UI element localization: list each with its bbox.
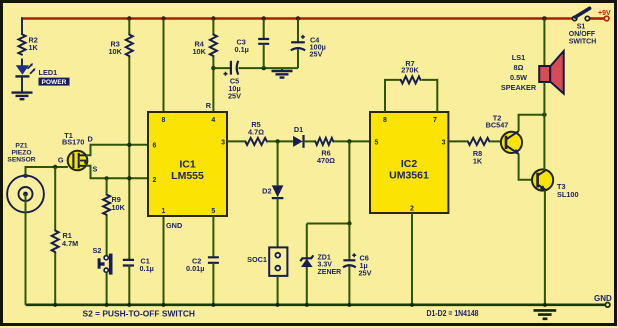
node junction rail/pin8 xyxy=(161,16,165,20)
wire R2 to LED1 xyxy=(21,59,23,66)
diode D2 xyxy=(272,185,284,197)
svg-text:3: 3 xyxy=(442,140,446,147)
svg-text:D1: D1 xyxy=(294,125,303,134)
resistor R8 xyxy=(467,138,491,145)
wire rail corner down to R2 xyxy=(21,17,23,33)
piezo sensor PZ1 xyxy=(7,176,44,213)
svg-text:D1-D2 = 1N4148: D1-D2 = 1N4148 xyxy=(427,309,479,318)
svg-text:10K: 10K xyxy=(109,47,123,56)
svg-text:S: S xyxy=(93,164,98,173)
svg-text:S2: S2 xyxy=(93,246,102,255)
wire SOC1 to ground rail xyxy=(277,276,279,305)
svg-text:SOC1: SOC1 xyxy=(247,255,267,264)
svg-text:10K: 10K xyxy=(112,203,126,212)
wire IC2 pin 3 to R8 xyxy=(448,140,466,142)
wire C6 to ground rail xyxy=(348,266,350,305)
resistor R5 xyxy=(244,138,268,145)
node junction D2 top xyxy=(275,139,279,143)
svg-text:SPEAKER: SPEAKER xyxy=(501,83,537,92)
wire D2 column xyxy=(277,141,279,185)
transistor T1 (MOSFET) xyxy=(68,151,88,171)
transistor T2 xyxy=(501,132,522,153)
wire rail to IC1 pin 8 xyxy=(163,19,165,113)
svg-text:LM555: LM555 xyxy=(171,170,204,182)
svg-text:8: 8 xyxy=(383,117,387,124)
svg-text:BS170: BS170 xyxy=(62,137,84,146)
ground (under C3/C4) xyxy=(281,68,283,70)
resistor R7 xyxy=(400,76,422,83)
node junction gate/R1 xyxy=(53,165,57,169)
switch S2 (push-to-off) xyxy=(109,254,113,275)
svg-text:ZENER: ZENER xyxy=(318,269,342,276)
wire ZD1 to ground rail xyxy=(306,267,308,305)
svg-text:0.5W: 0.5W xyxy=(510,73,527,82)
wire D1 to R6 xyxy=(304,140,315,142)
svg-text:4.7M: 4.7M xyxy=(62,239,78,248)
svg-text:GND: GND xyxy=(166,221,182,230)
resistor R2 xyxy=(19,34,26,56)
node junction rail/C3 xyxy=(262,16,266,20)
transistor T3 xyxy=(532,169,553,190)
svg-text:POWER: POWER xyxy=(42,79,67,86)
svg-text:GND: GND xyxy=(594,294,612,303)
svg-text:ZD1: ZD1 xyxy=(318,254,331,261)
svg-text:7: 7 xyxy=(433,117,437,124)
svg-text:0.01µ: 0.01µ xyxy=(186,264,204,273)
svg-text:PZ1: PZ1 xyxy=(15,143,28,150)
resistor R6 xyxy=(315,138,335,145)
wire R3 down to C1 xyxy=(128,57,130,260)
capacitor C1 xyxy=(123,260,134,266)
svg-text:BC547: BC547 xyxy=(486,120,509,129)
wire R4 to IC1 pin 4 xyxy=(212,57,214,112)
capacitor C2 xyxy=(208,257,219,263)
ground (under T3) xyxy=(534,310,557,318)
node junction S-row xyxy=(127,176,131,180)
wire C5 row left xyxy=(213,67,230,69)
wire C5 row right xyxy=(239,67,299,69)
diode D1 xyxy=(293,136,303,147)
wire rail to speaker xyxy=(543,19,545,67)
wire LED1 to ground xyxy=(21,76,23,92)
svg-text:+9V: +9V xyxy=(598,10,611,17)
node junction rail/C4 xyxy=(296,16,300,20)
wire C2 to ground rail xyxy=(212,263,214,305)
ground (under LED1) xyxy=(12,93,33,100)
wire speaker to T2/T3 xyxy=(543,82,545,170)
resistor R3 xyxy=(126,34,133,58)
wire IC1 pin 1 to ground rail xyxy=(163,216,165,305)
svg-text:270K: 270K xyxy=(401,66,419,75)
wire junction down to R9 xyxy=(106,178,108,193)
wire R5 to D1 xyxy=(268,140,293,142)
svg-text:2: 2 xyxy=(153,177,157,184)
+9V rail (top, red) xyxy=(22,17,573,20)
wire C1 to ground rail xyxy=(128,266,130,305)
speaker LS1 xyxy=(539,66,550,82)
svg-text:LED1: LED1 xyxy=(39,68,58,77)
switch S1 lever xyxy=(575,8,589,17)
zener diode ZD1 xyxy=(300,255,313,261)
svg-text:1K: 1K xyxy=(473,157,483,166)
svg-text:2: 2 xyxy=(410,206,414,213)
svg-text:25V: 25V xyxy=(310,49,323,58)
wire R1 to ground rail xyxy=(54,253,56,305)
IC2 box xyxy=(370,112,448,213)
node junction T2 collector/speaker xyxy=(542,113,546,117)
svg-text:LS1: LS1 xyxy=(512,53,525,62)
svg-text:8Ω: 8Ω xyxy=(514,63,524,72)
LED LED1 xyxy=(16,65,29,75)
svg-text:5: 5 xyxy=(211,208,215,215)
wire T2 emitter to T3 base xyxy=(519,154,538,180)
wire R8 to T2 base xyxy=(490,140,501,142)
node junction rail/R3 xyxy=(127,16,131,20)
wire rail to +9V terminal xyxy=(589,17,604,20)
node junction C3 bottom xyxy=(262,66,266,70)
wire rail to R4 xyxy=(212,19,214,34)
svg-text:470Ω: 470Ω xyxy=(317,156,335,165)
node junction rail/R4 xyxy=(211,16,215,20)
svg-text:ON/OFF: ON/OFF xyxy=(569,31,596,38)
svg-text:5: 5 xyxy=(375,140,379,147)
wire R7 loop xyxy=(385,80,437,112)
wire IC2 pin 2 to ground rail xyxy=(411,213,413,305)
POWER label box xyxy=(39,78,70,86)
wire junction down to R1 xyxy=(54,167,56,230)
svg-text:0.1µ: 0.1µ xyxy=(140,264,154,273)
svg-text:S1: S1 xyxy=(577,23,586,30)
svg-text:IC1: IC1 xyxy=(179,158,196,170)
svg-text:SWITCH: SWITCH xyxy=(569,38,597,45)
GND terminal circle xyxy=(605,303,610,308)
svg-text:UM3561: UM3561 xyxy=(389,169,429,181)
svg-text:SL100: SL100 xyxy=(557,190,579,199)
svg-text:8: 8 xyxy=(162,117,166,124)
svg-text:1K: 1K xyxy=(29,43,39,52)
node junction R6/ZD1 xyxy=(347,139,351,143)
wire T1 source to IC1 pin 2 xyxy=(86,166,148,179)
wire C3 to C5 row xyxy=(263,44,265,68)
svg-text:R: R xyxy=(206,101,212,110)
wire T1 drain to IC1 pin 6 xyxy=(86,145,148,156)
svg-text:3.3V: 3.3V xyxy=(318,262,333,269)
wire T3 emitter to ground rail xyxy=(544,190,546,305)
capacitor C3 xyxy=(258,39,269,44)
wire piezo center down to ground rail xyxy=(25,194,27,305)
wire S2 to ground rail xyxy=(106,272,108,304)
svg-text:PIEZO: PIEZO xyxy=(11,150,31,157)
node junction D-row xyxy=(127,143,131,147)
op-amp IC1 box xyxy=(148,112,227,216)
svg-text:IC2: IC2 xyxy=(401,158,418,170)
resistor R4 xyxy=(210,34,217,58)
svg-text:G: G xyxy=(58,155,64,164)
resistor R9 xyxy=(103,194,110,216)
svg-text:6: 6 xyxy=(153,143,157,150)
capacitor C5 xyxy=(230,61,232,75)
svg-text:10K: 10K xyxy=(193,47,207,56)
node junction rail/speaker xyxy=(542,16,547,21)
capacitor C4 xyxy=(291,41,305,43)
switch S1 contacts xyxy=(572,16,576,20)
wire T2 collector up to speaker line xyxy=(519,115,545,131)
junction dots on ground rail xyxy=(53,303,57,307)
svg-text:4.7Ω: 4.7Ω xyxy=(248,127,264,136)
capacitor C6 xyxy=(343,259,355,261)
connector SOC1 xyxy=(269,247,287,276)
+9V terminal xyxy=(604,16,609,21)
wire C4 to C5 row xyxy=(297,49,299,68)
ground rail (bottom) xyxy=(26,303,606,306)
resistor R1 xyxy=(52,230,59,254)
svg-text:25V: 25V xyxy=(228,92,241,101)
svg-text:0.1µ: 0.1µ xyxy=(235,45,249,54)
node junction R9 top xyxy=(105,176,109,180)
wire IC1 pin 3 to R5 xyxy=(227,140,244,142)
svg-text:1: 1 xyxy=(162,208,166,215)
svg-text:D2: D2 xyxy=(262,186,271,195)
wire C6 column xyxy=(348,224,350,261)
svg-text:4: 4 xyxy=(211,117,215,124)
wire rail to C4 xyxy=(297,19,299,43)
wire piezo top to gate row xyxy=(26,167,68,176)
wire R9 to S2 xyxy=(106,215,108,255)
svg-text:D: D xyxy=(88,134,93,143)
svg-text:SENSOR: SENSOR xyxy=(7,157,35,164)
wire R6 to IC2 pin 5 xyxy=(334,140,370,142)
wire R6 junction down and left to ZD1 xyxy=(307,141,350,257)
svg-text:S2 = PUSH-TO-OFF SWITCH: S2 = PUSH-TO-OFF SWITCH xyxy=(83,309,196,318)
svg-text:3: 3 xyxy=(221,140,225,147)
svg-text:25V: 25V xyxy=(359,268,372,277)
node junction R4/C5 xyxy=(211,66,215,70)
wire rail to R3 xyxy=(128,19,130,34)
wire D2 to SOC1 xyxy=(277,198,279,247)
wire IC1 pin 5 to C2 xyxy=(212,216,214,257)
wire rail to C3 xyxy=(263,19,265,40)
node junction C6 top xyxy=(347,221,351,225)
